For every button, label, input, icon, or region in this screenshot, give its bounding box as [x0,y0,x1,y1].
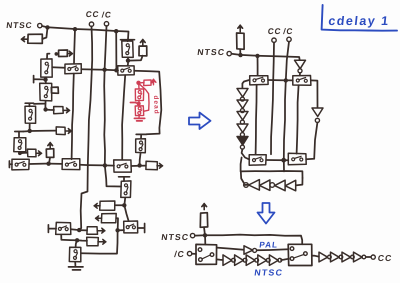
svg-text:/C: /C [101,11,112,20]
svg-text:cdelay 1: cdelay 1 [328,14,391,28]
svg-text:NTSC: NTSC [254,268,284,278]
svg-text:/C: /C [174,249,186,259]
svg-text:NTSC: NTSC [6,20,33,30]
svg-text:PAL: PAL [259,240,279,249]
svg-text:CC: CC [377,253,393,263]
svg-text:CC: CC [267,27,282,36]
svg-text:/C: /C [283,27,294,36]
svg-text:NTSC: NTSC [197,47,226,57]
svg-text:CC: CC [85,10,100,19]
svg-text:NTSC: NTSC [161,232,190,242]
svg-text:dead: dead [152,95,160,114]
